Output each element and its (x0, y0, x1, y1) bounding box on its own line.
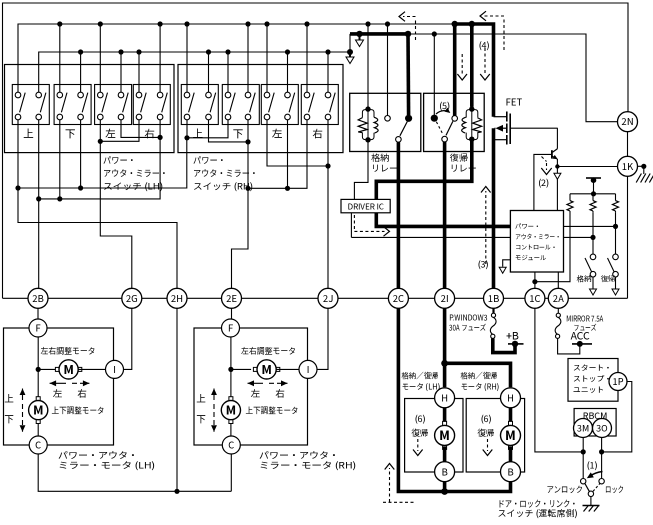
resistor R1 (569, 194, 571, 201)
switch RH 右 contact box (301, 85, 338, 125)
wire RH 上L-下L tie (187, 120, 228, 138)
svg-text:B: B (507, 464, 513, 478)
connector 3M (574, 419, 593, 438)
wire module bottom pin to connector 2A (557, 272, 559, 288)
connector 2G (122, 288, 142, 308)
arrow 左右 direction LH (50, 382, 66, 384)
wire bus2 stub down to switch at x=328 (327, 52, 329, 92)
wire motor to I RH (276, 368, 299, 370)
terminal B RH (501, 462, 521, 482)
wire thick branch to H RH (445, 363, 511, 387)
arrow 上下 direction LH (22, 389, 24, 401)
terminal C LH (29, 436, 47, 454)
wire LH 右R down to net B (39, 120, 160, 199)
wire harness row line at y=298 (3, 297, 628, 299)
switch RH 上 pole 2 (208, 91, 210, 93)
wire 3M to unlock contact (582, 438, 584, 479)
arrow dashed down to 復帰 relay coil (484, 48, 486, 75)
unit スタート・ストップ・ユニット box (568, 359, 618, 402)
wire net C 左R stub (287, 120, 289, 189)
fuse MIRROR 7.5A (557, 308, 559, 313)
power outer mirror switch RH box (178, 65, 343, 153)
motor M 左右調整モータ LH (55, 367, 59, 371)
wire module bottom pin to connector 1C (534, 272, 536, 288)
arrow 上下 direction RH (213, 389, 215, 401)
junction thick bus flow arrow (356, 31, 362, 37)
wire I to connector 2G (124, 308, 132, 369)
wire F down through junction to up-down motor (37, 337, 39, 401)
switch RH 右 pole 1 (306, 91, 308, 93)
svg-text:(2): (2) (538, 176, 549, 189)
svg-text:上: 上 (4, 391, 14, 405)
wire 復帰 relay common thick down to connector 2I (443, 142, 447, 288)
svg-text:格納: 格納 (577, 274, 592, 285)
wire FET source thick down to connector 1B (492, 128, 496, 288)
wire LH 左R-右R tie (121, 120, 160, 138)
wire 1P to lock switch node (602, 382, 632, 452)
svg-text:(4): (4) (478, 39, 489, 52)
wire thick bus y=34 to 格納 relay contact (350, 32, 408, 36)
terminal H LH (435, 388, 455, 408)
svg-text:右: 右 (77, 386, 87, 400)
svg-text:上: 上 (196, 391, 206, 405)
terminal I RH (299, 360, 317, 378)
svg-text:モータ (RH): モータ (RH) (461, 382, 500, 393)
connector 1B (484, 288, 504, 308)
svg-text:下: 下 (65, 127, 76, 142)
svg-text:F: F (228, 321, 234, 335)
wire C RH down to ground bus (230, 454, 232, 491)
relay 格納 right fixed contact (closed) (405, 115, 412, 122)
switch LH 上 contact box (12, 85, 49, 125)
wire junction to left-right motor LH (38, 368, 59, 370)
switch LH 下 pole 2 (80, 91, 82, 93)
connector 2N (618, 112, 638, 132)
module RBCM box (574, 409, 616, 437)
arrow 左右 direction RH (248, 382, 264, 384)
transistor FET symbol (494, 116, 507, 118)
arrow (1) transfer arc (590, 472, 603, 477)
resistor R3 (615, 194, 617, 201)
relay 格納リレー box (350, 93, 421, 151)
wire net A down to connector 2H (18, 188, 177, 288)
wire 1C down to door lock switch node (535, 308, 583, 452)
wire bus2 y=52 (39, 52, 350, 92)
relay 格納 left fixed contact (385, 116, 391, 122)
wire bus2 stub down to switch at x=228 (227, 52, 229, 92)
power ACC terminal (572, 343, 592, 345)
svg-text:(1): (1) (586, 459, 597, 472)
motor box 格納/復帰モータ (LH) (405, 399, 463, 473)
svg-text:パワー・: パワー・ (515, 222, 541, 231)
arrow (6) dashed down RH (487, 439, 489, 451)
arrow (3) dashed up (485, 191, 487, 264)
switch RH 上 contact box (181, 85, 218, 125)
svg-text:モータ (LH): モータ (LH) (402, 382, 441, 393)
motor box 格納/復帰モータ (RH) (466, 399, 524, 473)
connector 1C (525, 288, 545, 308)
wire bus1 stub down to switch at x=248 (247, 24, 249, 92)
arrow return flow dashed up (389, 468, 391, 502)
svg-text:上: 上 (23, 127, 34, 142)
svg-text:1C: 1C (529, 291, 540, 305)
connector 2A (548, 288, 568, 308)
svg-text:復帰: 復帰 (410, 427, 428, 439)
arrow dashed flow near 格納 relay feed (415, 18, 417, 40)
wire 2E to F RH (231, 308, 233, 319)
svg-text:左右調整モータ: 左右調整モータ (41, 345, 96, 357)
connector 1P (609, 373, 627, 391)
switch LH 左 contact box (95, 85, 132, 125)
svg-text:(6): (6) (480, 412, 491, 425)
junction LH 右R tie (158, 135, 163, 140)
svg-text:パワー・: パワー・ (193, 154, 226, 167)
connector 2C (388, 288, 408, 308)
connector 2B (28, 288, 48, 308)
svg-text:左: 左 (272, 127, 283, 142)
relay 復帰 blade alternate position dashed (436, 122, 443, 135)
connector 2E (222, 288, 242, 308)
wire H to motor RH thick (509, 408, 513, 425)
ground symbol door lock switch (583, 505, 600, 507)
wire 3O to lock contact (601, 438, 603, 479)
svg-text:(3): (3) (477, 258, 488, 271)
motor assembly パワー・アウタ・ミラー・モータ (RH) box (194, 328, 308, 445)
switch RH 下 contact box (222, 85, 259, 125)
svg-text:2C: 2C (393, 291, 404, 305)
switch 格納 manual (590, 254, 596, 260)
svg-text:C: C (35, 438, 41, 452)
svg-text:左: 左 (53, 386, 63, 400)
svg-text:M: M (33, 402, 43, 419)
svg-text:ユニット: ユニット (573, 385, 604, 396)
wire bus1 stub down to switch at x=59.8 (59, 24, 61, 92)
svg-text:3O: 3O (596, 422, 608, 435)
switch LH 下 pole 1 (59, 91, 61, 93)
svg-text:+B: +B (506, 329, 519, 344)
junction bus2 end with flow arrow (347, 49, 353, 55)
wire bus1 thick segment to FET drain (455, 24, 494, 117)
wire 1K to row line (627, 176, 629, 298)
junction 2H wire on ground bus (176, 308, 178, 491)
svg-text:(6): (6) (414, 412, 425, 425)
svg-text:ACC: ACC (571, 329, 591, 344)
wire net A y=188 across LH (18, 120, 187, 188)
svg-text:右: 右 (275, 386, 285, 400)
svg-text:2E: 2E (226, 291, 237, 305)
motor M 上下調整モータ LH (36, 397, 40, 401)
svg-text:左: 左 (105, 127, 116, 142)
power outer mirror switch LH box (5, 65, 175, 153)
motor assembly パワー・アウタ・ミラー・モータ (LH) box (4, 328, 114, 445)
motor M 格納/復帰 LH (443, 421, 447, 425)
wire transistor emitter to 1K and module (556, 159, 558, 211)
wire module left pin to open arrow (503, 260, 511, 267)
relay 復帰 right fixed contact (452, 116, 458, 122)
relay 復帰 left fixed contact (open) (431, 115, 438, 122)
switch LH 右 pole 2 (159, 91, 161, 93)
wire motor to I LH (78, 368, 105, 370)
wire bus1 stub down to switch at x=187 (186, 24, 188, 92)
wire bus1 stub to 格納 relay left contact (387, 24, 389, 116)
connector 2H (167, 288, 187, 308)
svg-text:上下調整モータ: 上下調整モータ (52, 404, 105, 416)
ground symbol right of 1K (636, 174, 641, 183)
svg-text:格納／復帰: 格納／復帰 (401, 371, 439, 382)
wire FET gate to transistor (510, 127, 558, 129)
wire common to ground (590, 497, 592, 506)
wire 2B to F (37, 308, 39, 319)
wire motor to C LH (37, 424, 39, 437)
svg-text:3M: 3M (577, 422, 589, 435)
switch RH 上 pole 1 (186, 91, 188, 93)
terminal B LH (435, 462, 455, 482)
svg-text:DRIVER IC: DRIVER IC (347, 201, 384, 212)
relay 格納 moving blade (400, 122, 407, 136)
switch LH 下 contact box (54, 85, 91, 125)
svg-text:M: M (439, 425, 450, 444)
wire RH 左L-右R tie then down to connector 2J (267, 120, 328, 166)
terminal H RH (501, 388, 521, 408)
wire B LH to thick bus (443, 482, 447, 492)
wire junction to left-right motor RH (231, 368, 251, 370)
wire 1K to ground (638, 165, 644, 167)
wire 格納 coil bottom to DRIVER IC (354, 140, 368, 200)
power +B bar top (586, 177, 601, 179)
svg-text:30A フューズ: 30A フューズ (449, 323, 486, 334)
svg-text:B: B (441, 464, 447, 478)
fuse P.WINDOW3 30A (492, 308, 494, 313)
wire pull-up R1 to 1C node (535, 212, 570, 282)
wire bus1 y=24 feeding switch contacts and 格納 relay (18, 24, 455, 92)
wire bus1 stub down to switch at x=307 (306, 24, 308, 92)
svg-text:スイッチ (LH): スイッチ (LH) (103, 180, 163, 193)
module パワー・アウタ・ミラー・コントロール・モジュール box (510, 211, 563, 273)
relay 復帰 moving blade solid to right contact (446, 121, 453, 135)
switch RH 下 pole 1 (227, 91, 229, 93)
junction bus1 thick to 復帰 relay right contact (452, 21, 458, 27)
switch LH 左 pole 1 (99, 91, 101, 93)
junction LH 左L tie (98, 139, 103, 144)
svg-text:右: 右 (144, 127, 155, 142)
switch ドア・ロック・リンク・スイッチ (581, 479, 586, 484)
switch LH 右 contact box (133, 85, 170, 125)
svg-text:アウタ・ミラー・: アウタ・ミラー・ (103, 167, 168, 180)
wire h2 module to R2 and 格納 switch (564, 236, 594, 238)
svg-text:F: F (35, 321, 41, 335)
resistor R2 (592, 194, 594, 201)
arrow (5) contact transfer arc (436, 111, 448, 114)
svg-text:H: H (507, 390, 514, 404)
terminal F RH (222, 319, 240, 337)
wire h1 module to R3 and 復帰 switch (564, 225, 616, 227)
wire F down through junction RH (230, 337, 232, 401)
arrow (6) dashed down LH (417, 439, 419, 451)
wire I to connector 2J (317, 308, 328, 369)
terminal F LH (29, 319, 47, 337)
switch RH 左 pole 1 (266, 91, 268, 93)
wire fuse to +B thick (493, 338, 515, 352)
terminal C RH (222, 436, 240, 454)
connector 1K (618, 156, 638, 176)
wire riser bus2 to thick bus y=34 (349, 34, 351, 52)
switch RH 左 pole 2 (287, 91, 289, 93)
switch RH 下 pole 2 (247, 91, 249, 93)
svg-text:2G: 2G (126, 291, 138, 305)
svg-text:コントロール・: コントロール・ (515, 243, 557, 252)
connector 2J (318, 288, 338, 308)
power +B terminal (508, 343, 524, 345)
svg-text:C: C (228, 438, 234, 452)
wire LH 左L-右L tie then to connector 2G (100, 120, 139, 142)
wire 2I thick down to H junction (443, 308, 447, 387)
junction bus y=34 to 復帰 relay left contact (432, 31, 437, 36)
wire 格納 relay common thick down to connector 2C (397, 142, 401, 288)
svg-text:スタート・: スタート・ (573, 363, 612, 374)
motor M 上下調整モータ RH (229, 397, 233, 401)
arrow dashed flow (4) near FET drain (503, 18, 505, 50)
wire net B 上R down to connector 2B (38, 120, 40, 288)
svg-text:ストップ・: ストップ・ (573, 374, 612, 385)
wire bus2 stub down to switch at x=80.6 (80, 52, 82, 92)
wire thin DRIVER IC output to control module (350, 213, 352, 237)
wire H to motor LH thick (443, 408, 447, 425)
svg-text:2I: 2I (441, 291, 449, 305)
svg-text:1K: 1K (622, 159, 634, 173)
arrow (2) dashed (542, 157, 547, 162)
wire 復帰 coil bottom thick to control module (376, 139, 510, 226)
wire net C y=188 across RH to 右L (248, 120, 307, 189)
flow arrow on emitter wire (554, 173, 561, 179)
wire bus1 stub down to switch at x=100.3 (99, 24, 101, 92)
svg-text:パワー・: パワー・ (103, 154, 136, 167)
wire thin bus y=34 continuing to 2N (408, 34, 618, 122)
svg-text:M: M (261, 361, 271, 378)
switch LH 上 pole 1 (17, 91, 19, 93)
wire motor to C RH (230, 424, 232, 437)
svg-text:下: 下 (196, 412, 206, 426)
wire bus1 stub to 格納 relay coil (367, 24, 369, 107)
svg-text:ミラー・モータ (RH): ミラー・モータ (RH) (259, 459, 356, 472)
wire motor to B RH thick (509, 446, 513, 461)
wire C LH to ground bus (38, 454, 231, 491)
wire bus2 stub down to switch at x=139 (138, 52, 140, 92)
transistor Q1 (556, 128, 558, 149)
wire net A 下R stub (80, 120, 82, 188)
svg-text:スイッチ (運転席側): スイッチ (運転席側) (498, 507, 578, 520)
switch LH 左 pole 2 (120, 91, 122, 93)
relay coil 格納 (367, 109, 369, 140)
wire transistor base to control module (534, 154, 552, 210)
svg-text:2H: 2H (171, 291, 183, 305)
svg-text:モジュール: モジュール (515, 253, 547, 262)
wire resistor supply bus (570, 193, 616, 195)
svg-text:左: 左 (251, 386, 261, 400)
wire RH 上R-下R tie (209, 120, 249, 142)
wire net B 下L stub (59, 120, 61, 199)
svg-text:2A: 2A (553, 291, 564, 305)
arrow dashed down to 復帰 relay contact (461, 54, 463, 75)
wire bus1 stub down to switch at x=160.1 (159, 24, 161, 92)
svg-text:M: M (63, 361, 73, 378)
relay 格納 common terminal (396, 137, 402, 143)
wire bus2 stub down to switch at x=121 (120, 52, 122, 92)
ic DRIVER IC box (341, 199, 390, 212)
relay 復帰リレー box (424, 93, 485, 151)
wire net C jog down to connector 2E (232, 188, 249, 288)
wire RH 下R down to net C (247, 120, 249, 189)
svg-text:リレー: リレー (450, 162, 477, 175)
svg-text:復帰: 復帰 (476, 427, 494, 439)
wire motor to B LH thick (443, 446, 447, 461)
switch 復帰 manual (613, 254, 619, 260)
switch LH 上 pole 2 (38, 91, 40, 93)
svg-text:I: I (307, 362, 310, 376)
switch LH 右 pole 1 (138, 91, 140, 93)
svg-text:格納／復帰: 格納／復帰 (460, 371, 498, 382)
svg-text:1P: 1P (612, 374, 623, 388)
svg-text:M: M (226, 402, 236, 419)
wire bus1 stub down to switch at x=267 (266, 24, 268, 92)
svg-text:スイッチ (RH): スイッチ (RH) (193, 180, 253, 193)
svg-text:I: I (113, 362, 116, 376)
wire bus2 stub down to switch at x=287.5 (287, 52, 289, 92)
svg-text:上下調整モータ: 上下調整モータ (246, 404, 299, 416)
connector 2I (435, 288, 455, 308)
wire fuse to ACC (558, 338, 580, 354)
switch RH 左 contact box (261, 85, 298, 125)
junction thick bus corner down to 格納 relay (405, 31, 411, 37)
svg-text:M: M (505, 425, 516, 444)
svg-text:下: 下 (233, 127, 244, 142)
svg-text:ロック: ロック (605, 484, 624, 496)
svg-text:1B: 1B (488, 291, 500, 305)
svg-text:右: 右 (312, 127, 323, 142)
svg-text:アウタ・ミラー・: アウタ・ミラー・ (515, 232, 561, 241)
svg-text:下: 下 (4, 412, 14, 426)
svg-text:ミラー・モータ (LH): ミラー・モータ (LH) (58, 459, 155, 472)
motor M 格納/復帰 RH (509, 421, 513, 425)
svg-text:リレー: リレー (371, 162, 398, 175)
svg-text:復帰: 復帰 (601, 274, 616, 285)
connector 3O (593, 419, 612, 438)
svg-text:上: 上 (193, 127, 204, 142)
wire 2N to 1K (627, 132, 629, 157)
relay 復帰 common terminal (442, 136, 448, 142)
svg-text:左右調整モータ: 左右調整モータ (241, 345, 296, 357)
svg-text:2B: 2B (32, 291, 44, 305)
wire 2C thick down and across to B terminals (398, 308, 510, 491)
wire bus2 stub down to switch at x=208.5 (208, 52, 210, 92)
relay coil 復帰 (471, 109, 473, 139)
svg-text:アンロック: アンロック (547, 484, 584, 496)
arrow DRIVER IC dashed (353, 215, 355, 231)
junction bus1 thick to 復帰 relay coil (469, 21, 475, 27)
switch RH 右 pole 2 (327, 91, 329, 93)
terminal I LH (106, 360, 124, 378)
svg-text:H: H (441, 390, 448, 404)
svg-text:2N: 2N (621, 114, 633, 128)
svg-text:FET: FET (506, 95, 523, 109)
svg-text:2J: 2J (323, 291, 333, 305)
motor M 左右調整モータ RH (253, 367, 257, 371)
wire outer loop from connector 2B up over the top to connector 2N (3, 3, 629, 298)
